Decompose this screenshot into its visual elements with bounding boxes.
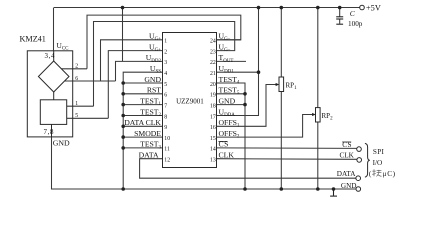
junction: GND vertical / pin10 SMODE	[121, 135, 125, 139]
wire: UZZ pin11 TEST3	[123, 147, 162, 149]
svg-text:22: 22	[210, 60, 216, 66]
wire: +5V top bus	[54, 7, 360, 9]
terminal circle CLK	[357, 158, 362, 163]
wire: UZZ pin21 UDD1 to +5V riser	[217, 71, 259, 73]
svg-text:2: 2	[164, 49, 167, 55]
wire: UZZ pin5 GND	[123, 82, 162, 84]
ground symbol at bottom bus	[333, 189, 335, 196]
svg-text:CLK: CLK	[219, 151, 235, 160]
svg-text:24: 24	[210, 39, 216, 45]
junction: ground bus / ground symbol	[332, 187, 336, 191]
UZZ right pin labels	[219, 32, 240, 160]
UZZ right pin numbers	[210, 39, 216, 164]
wire: RP1 top lead from +5V bus	[280, 8, 282, 78]
svg-text:15: 15	[210, 136, 216, 142]
KMZ41 box	[27, 51, 72, 137]
wire: KMZ41 pin2 stub	[61, 68, 87, 70]
svg-text:3: 3	[164, 60, 167, 66]
svg-text:UZZ9001: UZZ9001	[176, 97, 204, 105]
svg-text:100p: 100p	[348, 20, 363, 28]
KMZ41 lower element square	[40, 100, 66, 125]
junction: +5V bus / right supply riser	[257, 6, 261, 10]
terminal circle DATA	[356, 176, 361, 181]
potentiometer RP1 body	[279, 77, 284, 92]
wire: Ucc drop to KMZ41	[53, 8, 55, 51]
wire: UZZ pin19 TEST5	[217, 93, 246, 95]
wire: riser to UZZ pin3	[116, 61, 163, 81]
svg-text:13: 13	[210, 158, 216, 164]
junction: GND vertical / pin5 GND	[121, 81, 125, 85]
wire: riser pin6 to UZZ pin1	[101, 40, 163, 81]
wire: UZZ pin20 TEST4 to right ground vertical	[217, 83, 246, 189]
capacitor C plates	[336, 16, 343, 18]
junction: +5V riser / pin21 UDD1	[257, 70, 261, 74]
svg-text:2: 2	[75, 64, 78, 70]
junction: ground bus / RP2 bottom	[316, 187, 320, 191]
junction: right GND vertical / pin18 GND	[243, 103, 247, 107]
svg-text:+5V: +5V	[366, 4, 381, 13]
svg-text:16: 16	[210, 125, 216, 131]
svg-text:RST: RST	[147, 86, 161, 95]
svg-text:9: 9	[164, 125, 167, 131]
brace for SPI interface group	[365, 143, 370, 177]
junction: +5V bus / RP2 top	[316, 6, 320, 10]
UZZ left pin numbers	[164, 39, 170, 164]
svg-text:5: 5	[164, 82, 167, 88]
potentiometer RP2 body	[316, 108, 321, 122]
junction: ground bus / RP1 bottom	[280, 187, 284, 191]
svg-text:KMZ41: KMZ41	[20, 35, 46, 44]
svg-text:I/O: I/O	[373, 159, 383, 167]
svg-text:SPI: SPI	[373, 148, 385, 156]
junction: GND vertical / pin8 TEST2	[121, 114, 125, 118]
glyph: Chinese character jie (connect) drawn as strokes	[372, 169, 381, 176]
svg-text:TEST2: TEST2	[140, 107, 161, 118]
overline for pin14 CS label	[219, 140, 228, 142]
junction: ground bus / right GND vertical	[243, 187, 247, 191]
wire: KMZ41 pin1 stub	[67, 105, 94, 107]
svg-text:23: 23	[210, 49, 216, 55]
junction: GND vertical / pin7 TEST1	[121, 103, 125, 107]
arrowhead RP1 wiper	[276, 83, 280, 86]
svg-text:GND: GND	[219, 96, 236, 105]
svg-text:10: 10	[164, 136, 170, 142]
svg-text:17: 17	[210, 114, 216, 120]
wire: UZZ pin13 CLK to terminal	[217, 158, 357, 161]
svg-text:μ: μ	[383, 170, 387, 178]
svg-text:7: 7	[164, 103, 167, 109]
junction: +5V bus / left supply riser	[121, 6, 125, 10]
svg-text:14: 14	[210, 147, 216, 153]
svg-text:6: 6	[75, 76, 78, 82]
svg-text:DATA CLK: DATA CLK	[124, 118, 161, 127]
wire: +5V riser to UZZ pin3 row	[122, 8, 124, 62]
wire: UZZ pin12 DATA to DATA terminal	[140, 159, 356, 179]
wire: UZZ pin6 RST	[123, 93, 162, 95]
svg-text:4: 4	[164, 71, 167, 77]
wire: KMZ41 pin6 stub	[65, 80, 116, 82]
wire: UZZ pin16 OFFS1 to RP1 wiper	[217, 85, 277, 127]
wire: UZZ pin24 stub	[217, 39, 241, 41]
wire: RP2 top lead from +5V bus	[317, 8, 319, 108]
ground symbol below capacitor	[336, 23, 343, 25]
svg-text:7,8: 7,8	[44, 128, 55, 136]
svg-text:5: 5	[75, 113, 78, 119]
svg-text:1: 1	[164, 39, 167, 45]
svg-text:TEST4: TEST4	[219, 75, 240, 86]
wire: UZZ pin14 CS to terminal	[217, 147, 357, 150]
svg-text:GND: GND	[53, 139, 70, 148]
wire: UZZ pin7 TEST1	[123, 104, 162, 106]
wire: UZZ pin10 SMODE	[123, 136, 162, 138]
wire: ground vertical left of UZZ	[123, 72, 162, 189]
svg-text:DATA: DATA	[337, 170, 356, 178]
KMZ41 bridge diamond	[38, 61, 69, 92]
wire: over-top line KMZ41 pin2 to UZZ pin24	[87, 15, 241, 69]
svg-text:CLK: CLK	[340, 152, 355, 160]
svg-text:DATA: DATA	[139, 151, 159, 160]
svg-text:1: 1	[75, 101, 78, 107]
KMZ41 internal lead square to GND	[51, 124, 53, 136]
svg-text:SMODE: SMODE	[134, 129, 161, 138]
junction: GND vertical / pin9 DATA CLK	[121, 125, 125, 129]
wire: KMZ41 pin5 stub	[67, 117, 109, 119]
svg-text:C: C	[387, 170, 392, 178]
arrowhead RP2 wiper	[312, 113, 316, 116]
wire: UZZ pin9 DATA CLK	[123, 125, 162, 127]
wire: UZZ pin18 GND	[217, 104, 246, 106]
capacitor C leads	[339, 8, 341, 17]
svg-text:21: 21	[210, 71, 216, 77]
terminal circle GND	[356, 187, 361, 192]
terminal circle CS	[357, 147, 362, 152]
junction: GND vertical / pin6 RST	[121, 92, 125, 96]
wire: over-top line KMZ41 pin1 to UZZ pin23	[94, 22, 235, 107]
UZZ left pin labels	[124, 32, 161, 160]
wire: KMZ41 GND down	[52, 137, 356, 189]
svg-text:GND: GND	[144, 75, 161, 84]
wire: UZZ pin8 TEST2	[123, 115, 162, 117]
junction: right GND vertical / pin19 TEST5	[243, 92, 247, 96]
op-amp/IC U1 UZZ9001 box	[163, 33, 217, 168]
junction: GND vertical / pin11 TEST3	[121, 146, 125, 150]
svg-text:11: 11	[164, 147, 170, 153]
svg-text:20: 20	[210, 82, 216, 88]
wire: RP1 bottom lead to ground bus	[280, 92, 282, 190]
svg-text:6: 6	[164, 93, 167, 99]
svg-text:18: 18	[210, 103, 216, 109]
KMZ41 internal lead Ucc to diamond	[53, 51, 55, 61]
svg-text:GND: GND	[341, 182, 357, 190]
wire: riser pin5 to UZZ pin2	[108, 51, 162, 119]
terminal circle +5V	[360, 5, 365, 10]
wire: UZZ pin22 Tout stub	[217, 60, 247, 62]
svg-text:3,4: 3,4	[45, 52, 56, 60]
junction: +5V bus / RP1 top	[280, 6, 284, 10]
KMZ41 internal lead diamond to square	[53, 92, 55, 100]
junction: +5V bus / capacitor C	[338, 6, 342, 10]
junction: ground bus / left GND vertical	[121, 187, 125, 191]
svg-text:19: 19	[210, 93, 216, 99]
wire: +5V right riser to UZZ pin17 UDDA	[217, 8, 259, 116]
svg-text:8: 8	[164, 114, 167, 120]
svg-text:12: 12	[164, 158, 170, 164]
wire: RP2 bottom lead to ground bus	[317, 122, 319, 189]
wire: UZZ pin15 OFFS2 to RP2 wiper	[217, 115, 314, 138]
